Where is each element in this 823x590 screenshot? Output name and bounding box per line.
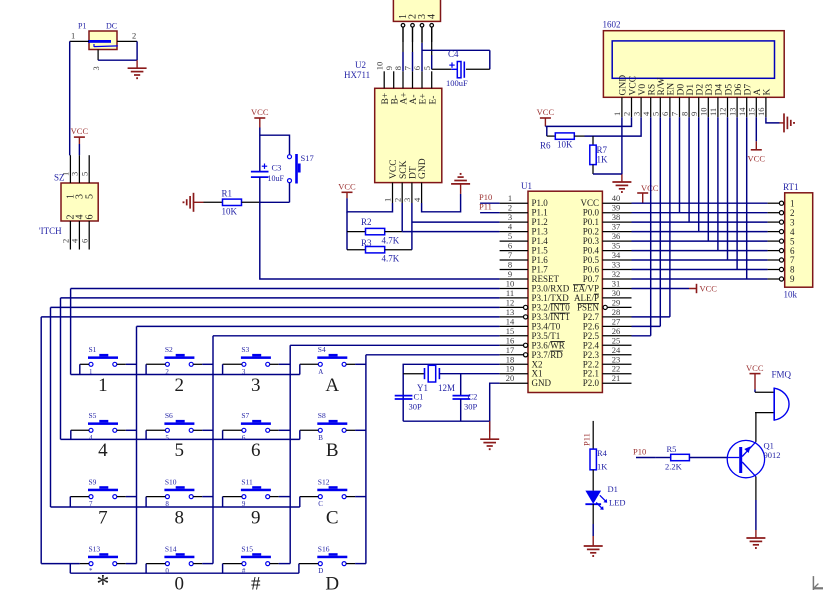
wire LCD D1 down (688, 117, 690, 222)
svg-text:E-: E- (428, 96, 438, 105)
wire U1 P2.5 to LCD RS (632, 335, 651, 337)
SZ pin 2 (61, 221, 71, 250)
svg-text:P1.2: P1.2 (532, 217, 548, 227)
connector P1 (DC power jack) (78, 22, 118, 50)
J1 pin 2 lead (411, 24, 415, 43)
svg-text:8: 8 (508, 260, 512, 270)
wire row4 bus (70, 572, 299, 574)
U2 top pin 7 (403, 66, 413, 88)
svg-text:S2: S2 (165, 345, 173, 354)
svg-text:S7: S7 (241, 411, 249, 420)
net label P10 (buzzer) (633, 447, 655, 458)
svg-text:24: 24 (612, 345, 621, 355)
svg-text:R5: R5 (667, 444, 677, 454)
wire column3 to U1 P3.6 (290, 345, 499, 563)
wire row2 feed from U1 P3.1 (61, 298, 500, 440)
net label P11 (479, 202, 500, 213)
wire crystal bottom rail (403, 420, 490, 422)
svg-text:GND: GND (532, 378, 552, 388)
U1 pin 21 (P2.0) (583, 373, 632, 388)
VCC at C3 (251, 107, 269, 128)
wire LCD D4 down (717, 117, 719, 250)
switch S13 (70, 544, 136, 575)
svg-text:C2: C2 (468, 392, 478, 402)
resistor R1 10K (204, 189, 260, 217)
wire reset node to U1 RESET (260, 202, 500, 279)
U1 pin 27 (P2.6) (583, 316, 632, 331)
U1 pin 14 (P3.4/T0) (500, 316, 561, 331)
LCD pin 14 (737, 97, 747, 117)
wire P1 pin2 to ground (136, 41, 138, 60)
wire E+ to C4 (422, 50, 490, 69)
RT1 pin 4 (768, 227, 795, 237)
svg-text:1: 1 (89, 368, 93, 376)
svg-text:P1.4: P1.4 (532, 236, 549, 246)
RT1 pin 1 (768, 198, 795, 208)
svg-text:4: 4 (508, 222, 513, 232)
label 4 (98, 440, 108, 461)
svg-text:11: 11 (708, 108, 718, 116)
wire P0.4 bus row (632, 250, 768, 252)
svg-text:A-: A- (409, 94, 419, 104)
svg-text:GND: GND (418, 158, 428, 179)
wire P1 pin3 to ground node (98, 59, 137, 61)
LCD pin 6 (660, 97, 670, 117)
VCC at SZ (71, 126, 89, 155)
svg-text:10k: 10k (784, 290, 798, 300)
svg-text:20: 20 (506, 373, 515, 383)
svg-text:5: 5 (651, 112, 661, 116)
wire P0.3 bus row (632, 240, 768, 242)
svg-text:5: 5 (79, 172, 89, 176)
switch S10 (146, 477, 213, 508)
svg-text:5: 5 (790, 236, 795, 246)
wire LCD D0 down (679, 117, 681, 213)
svg-text:22: 22 (612, 364, 621, 374)
svg-text:D0: D0 (676, 84, 686, 96)
SZ pin 1 (61, 155, 71, 183)
wire LCD D7 down (746, 117, 748, 279)
RT1 pin 5 (768, 236, 795, 246)
U1 pin 28 (P2.7) (583, 307, 632, 322)
wire VCC to C3 (259, 128, 261, 172)
U2 top pin 8 (393, 66, 403, 88)
svg-text:D4: D4 (715, 84, 725, 96)
LCD pin 4 (641, 97, 651, 117)
label 5 (175, 440, 185, 461)
U1 pin 20 (GND) (500, 373, 552, 388)
resistor R4 1K (590, 448, 608, 472)
svg-text:RESET: RESET (532, 274, 560, 284)
svg-text:4: 4 (89, 434, 93, 442)
switch S11 (223, 477, 291, 508)
VCC at U1 pin 40 (637, 183, 659, 203)
svg-text:5: 5 (422, 66, 432, 70)
label D (325, 574, 339, 590)
wire P1 pin1 to SZ pin1 (69, 41, 72, 155)
svg-text:R2: R2 (361, 217, 372, 227)
wire SCK (401, 203, 403, 232)
label 9 (251, 508, 261, 529)
svg-text:GND: GND (619, 75, 629, 96)
svg-text:0: 0 (165, 567, 169, 575)
svg-text:4: 4 (790, 227, 795, 237)
svg-text:P2.1: P2.1 (583, 369, 599, 379)
svg-text:FMQ: FMQ (772, 370, 792, 380)
wire LCD D5 down (727, 117, 729, 260)
wire VCC to R2 R3 (346, 212, 348, 250)
wire U1 GND down (490, 383, 500, 431)
svg-text:9012: 9012 (764, 450, 781, 460)
svg-text:D7: D7 (744, 84, 754, 96)
capacitor C4 100uF (446, 49, 490, 88)
svg-text:6: 6 (79, 239, 89, 243)
svg-text:30P: 30P (464, 402, 478, 412)
svg-text:19: 19 (506, 364, 515, 374)
svg-text:16: 16 (506, 335, 515, 345)
U1 pin 25 (P2.4) (583, 335, 632, 350)
svg-text:S15: S15 (241, 544, 253, 553)
svg-text:EN: EN (667, 83, 677, 96)
label 2 (175, 375, 185, 396)
svg-text:8: 8 (679, 112, 689, 116)
svg-text:4: 4 (412, 197, 422, 202)
LCD pin 13 (727, 97, 737, 117)
ground at U2 (451, 174, 470, 194)
resistor R6 10K (540, 126, 585, 150)
ground at P1 (128, 60, 147, 78)
U1 pin 13 (P3.3/INT1) (500, 307, 570, 322)
svg-text:VCC: VCC (628, 76, 638, 96)
net label P11 (LED) (582, 421, 594, 449)
LCD pin 8 (679, 97, 689, 117)
svg-text:U1: U1 (521, 181, 532, 191)
wire P0.5 bus row (632, 259, 768, 261)
U2 pin 1 (VCC) (383, 183, 393, 203)
wire X2 to crystal (403, 364, 499, 421)
svg-text:4.7K: 4.7K (382, 254, 400, 264)
wire VCC branch to S17 (260, 135, 290, 154)
svg-text:V0: V0 (638, 84, 648, 96)
svg-text:B+: B+ (381, 93, 391, 105)
switch S16 (299, 544, 366, 575)
svg-text:11: 11 (506, 288, 514, 298)
net label P10 (479, 192, 500, 203)
svg-text:1: 1 (508, 193, 512, 203)
svg-text:28: 28 (612, 307, 621, 317)
svg-text:VCC: VCC (251, 107, 269, 117)
wire LCD V0 (585, 117, 642, 136)
wire R4 to LED (592, 470, 594, 491)
svg-text:C3: C3 (272, 163, 282, 173)
svg-text:A: A (318, 368, 323, 376)
svg-text:6: 6 (251, 440, 261, 461)
SZ pin 5 (79, 155, 89, 183)
label # (251, 574, 261, 590)
switch S3 (223, 345, 291, 376)
U1 pin 3 (P1.2) (500, 212, 548, 227)
svg-text:0: 0 (175, 574, 185, 590)
svg-text:P2.5: P2.5 (583, 331, 600, 341)
wire U1 P2.7 to LCD EN (632, 316, 670, 318)
svg-text:3: 3 (402, 198, 412, 202)
wire DT to U1 P1.2 (412, 221, 500, 223)
label B (326, 440, 339, 461)
svg-text:P0.3: P0.3 (583, 236, 600, 246)
U1 pin 17 (P3.7/RD) (500, 345, 564, 360)
svg-text:'ITCH: 'ITCH (39, 226, 62, 236)
ground at Q1 (746, 530, 765, 548)
svg-text:D1: D1 (608, 484, 618, 494)
J1 pin 4 lead (430, 24, 434, 43)
svg-text:5: 5 (84, 194, 95, 199)
wire row3 bus (51, 506, 300, 508)
resistor R7 1K (590, 136, 622, 174)
U1 pin 32 (P0.7) (583, 269, 632, 284)
svg-text:7: 7 (508, 250, 512, 260)
svg-text:12: 12 (718, 108, 728, 117)
svg-text:1: 1 (790, 198, 795, 208)
wire J1-1 to A+ (402, 27, 404, 71)
svg-text:S3: S3 (241, 345, 249, 354)
svg-text:1: 1 (612, 112, 622, 116)
svg-text:14: 14 (737, 107, 747, 116)
svg-text:C4: C4 (448, 49, 459, 59)
svg-text:D3: D3 (705, 84, 715, 96)
U1 pin 38 (P0.1) (583, 212, 632, 227)
VCC at buzzer (746, 363, 764, 390)
svg-text:VCC: VCC (580, 198, 599, 208)
svg-text:5: 5 (175, 440, 185, 461)
svg-text:10K: 10K (222, 207, 238, 217)
svg-text:D1: D1 (686, 84, 696, 96)
op-amp U2 HX711 (344, 60, 442, 183)
wire X1 row (439, 373, 499, 375)
svg-text:P0.5: P0.5 (583, 255, 600, 265)
LCD pin 7 (670, 97, 680, 117)
svg-text:3: 3 (631, 112, 641, 116)
wire column4 to U1 P3.7 (366, 355, 500, 564)
svg-text:9: 9 (689, 112, 699, 116)
U1 pin 30 (ALE/P) (574, 288, 632, 303)
svg-text:5: 5 (508, 231, 512, 241)
wire P0.0 bus row (632, 212, 768, 214)
svg-text:36: 36 (612, 231, 621, 241)
svg-text:30: 30 (612, 288, 621, 298)
buzzer FMQ (755, 370, 792, 421)
label 8 (175, 508, 185, 529)
svg-text:HX711: HX711 (344, 70, 370, 80)
sheet border corner mark (813, 576, 823, 590)
svg-text:VCC: VCC (71, 126, 89, 136)
svg-text:7: 7 (98, 508, 108, 529)
wire LCD D3 down (707, 117, 709, 241)
svg-text:100uF: 100uF (446, 78, 468, 88)
svg-text:7: 7 (89, 500, 93, 508)
svg-text:13: 13 (727, 108, 737, 117)
U1 pin 40 (VCC) (580, 193, 631, 208)
svg-text:P1: P1 (78, 22, 86, 31)
svg-text:P1.3: P1.3 (532, 227, 549, 237)
svg-text:S8: S8 (318, 411, 326, 420)
svg-text:2: 2 (622, 112, 632, 116)
wire J1-3 to E+ (421, 27, 423, 71)
U1 pin 2 (P1.1) (500, 203, 548, 218)
svg-text:7: 7 (670, 112, 680, 116)
svg-text:VCC: VCC (537, 107, 555, 117)
svg-text:R1: R1 (222, 189, 233, 199)
LCD pin 3 (631, 97, 641, 117)
svg-text:32: 32 (612, 269, 621, 279)
switch S12 (300, 477, 366, 508)
wire DT (411, 203, 413, 250)
wire S17 to reset node (260, 183, 290, 203)
U1 pin 15 (P3.5/T1) (500, 326, 561, 341)
wire row4 feed from U1 P3.3 (41, 317, 499, 564)
wire R5 to Q1 base (689, 457, 727, 459)
svg-text:VCC: VCC (746, 363, 764, 373)
wire P0.6 bus row (632, 269, 768, 271)
U1 pin 33 (P0.6) (583, 260, 632, 275)
svg-text:P1.0: P1.0 (532, 198, 549, 208)
capacitor C1 30P (395, 392, 424, 412)
svg-text:VCC: VCC (748, 154, 766, 164)
ground at U1 GND (480, 421, 499, 449)
svg-text:LED: LED (609, 498, 626, 508)
RT1 pin 6 (768, 246, 795, 256)
svg-text:K: K (763, 89, 773, 96)
switch S7 (223, 411, 291, 442)
svg-text:1: 1 (71, 31, 75, 41)
svg-text:P1.7: P1.7 (532, 265, 549, 275)
transistor Q1 9012 (727, 440, 780, 477)
svg-text:1K: 1K (597, 155, 609, 165)
P1 pin 3 (91, 50, 101, 71)
wire row3 feed from U1 P3.2 (51, 307, 500, 507)
svg-text:26: 26 (612, 326, 621, 336)
VCC at LCD pin15 (748, 117, 766, 163)
svg-text:16: 16 (756, 108, 766, 117)
RT1 pin 7 (768, 255, 795, 265)
RT1 pin 2 (768, 208, 795, 218)
wire P0.1 bus row (632, 221, 768, 223)
wire LCD GND down (621, 117, 623, 174)
svg-text:9: 9 (790, 274, 795, 284)
wire LCD D6 down (736, 117, 738, 269)
svg-text:29: 29 (612, 297, 621, 307)
U1 pin 35 (P0.4) (583, 241, 632, 256)
svg-text:P2.3: P2.3 (583, 350, 600, 360)
svg-text:7: 7 (790, 255, 795, 265)
svg-text:#: # (251, 574, 261, 590)
ground at LED (584, 536, 603, 556)
svg-text:3: 3 (790, 217, 795, 227)
svg-text:S9: S9 (89, 477, 97, 486)
connector J1 (load cell header) (393, 0, 440, 21)
LCD pin 2 (622, 97, 632, 117)
svg-text:Q1: Q1 (764, 441, 774, 451)
svg-text:1: 1 (383, 198, 393, 202)
svg-text:10K: 10K (557, 140, 573, 150)
wire LCD VCC (545, 117, 631, 126)
svg-text:P3.1/TXD: P3.1/TXD (532, 293, 570, 303)
svg-text:R6: R6 (540, 141, 551, 151)
svg-text:1: 1 (98, 375, 108, 396)
svg-text:S10: S10 (165, 477, 177, 486)
wire row1 bus (71, 374, 300, 376)
svg-text:SCK: SCK (399, 160, 409, 179)
svg-text:6: 6 (660, 112, 670, 116)
U1 pin 34 (P0.5) (583, 250, 632, 265)
LCD pin 9 (689, 97, 699, 117)
svg-text:2: 2 (165, 368, 169, 376)
svg-text:B: B (318, 434, 323, 442)
svg-text:3: 3 (251, 375, 261, 396)
svg-text:8: 8 (175, 508, 185, 529)
U2 pin 4 (GND) (412, 183, 422, 203)
SZ pin 6 (79, 221, 89, 250)
svg-text:VCC: VCC (389, 159, 399, 179)
svg-text:40: 40 (612, 193, 621, 203)
svg-text:S16: S16 (318, 544, 330, 553)
svg-text:P3.5/T1: P3.5/T1 (532, 331, 561, 341)
label 6 (251, 440, 261, 461)
svg-text:P0.6: P0.6 (583, 265, 600, 275)
U2 top pin 5 (422, 66, 432, 88)
LCD pin 15 (747, 97, 757, 117)
svg-text:S11: S11 (241, 477, 253, 486)
svg-text:10: 10 (374, 62, 384, 71)
wire U2 GND to ground (422, 194, 461, 212)
svg-text:S4: S4 (318, 345, 326, 354)
svg-text:4: 4 (641, 111, 651, 116)
wire U1 pin40 to RT1 pin1 (632, 202, 768, 204)
U1 pin 7 (P1.6) (500, 250, 549, 265)
svg-text:E+: E+ (419, 93, 429, 104)
ground at R1 (184, 193, 204, 212)
LCD pin 10 (699, 97, 709, 117)
resistor R5 2.2K (655, 444, 689, 472)
svg-text:P11: P11 (479, 202, 492, 212)
U1 pin 4 (P1.3) (500, 222, 549, 237)
svg-text:R3: R3 (361, 238, 372, 248)
svg-text:34: 34 (612, 250, 621, 260)
svg-text:P0.7: P0.7 (583, 274, 600, 284)
svg-text:7: 7 (403, 66, 413, 70)
capacitor C2 30P (453, 374, 478, 422)
svg-text:DT: DT (409, 166, 419, 179)
svg-text:S17: S17 (301, 153, 314, 163)
switch S1 (80, 345, 137, 376)
U1 pin 36 (P0.3) (583, 231, 632, 246)
svg-text:A: A (753, 89, 763, 96)
svg-text:9: 9 (242, 500, 246, 508)
U1 pin 1 (P1.0) (500, 193, 549, 208)
switch S4 (300, 345, 366, 376)
capacitor C3 10uF (251, 163, 285, 203)
svg-text:U2: U2 (355, 60, 366, 70)
svg-text:D2: D2 (696, 84, 706, 96)
svg-text:15: 15 (506, 326, 515, 336)
svg-text:30P: 30P (409, 402, 423, 412)
wire LCD R/W to U1 (659, 117, 661, 326)
U1 pin 23 (P2.2) (583, 354, 632, 369)
svg-text:21: 21 (612, 373, 621, 383)
crystal Y1 12M (403, 365, 455, 393)
svg-text:S5: S5 (89, 411, 97, 420)
svg-text:5: 5 (165, 434, 169, 442)
switch S5 (71, 411, 137, 442)
